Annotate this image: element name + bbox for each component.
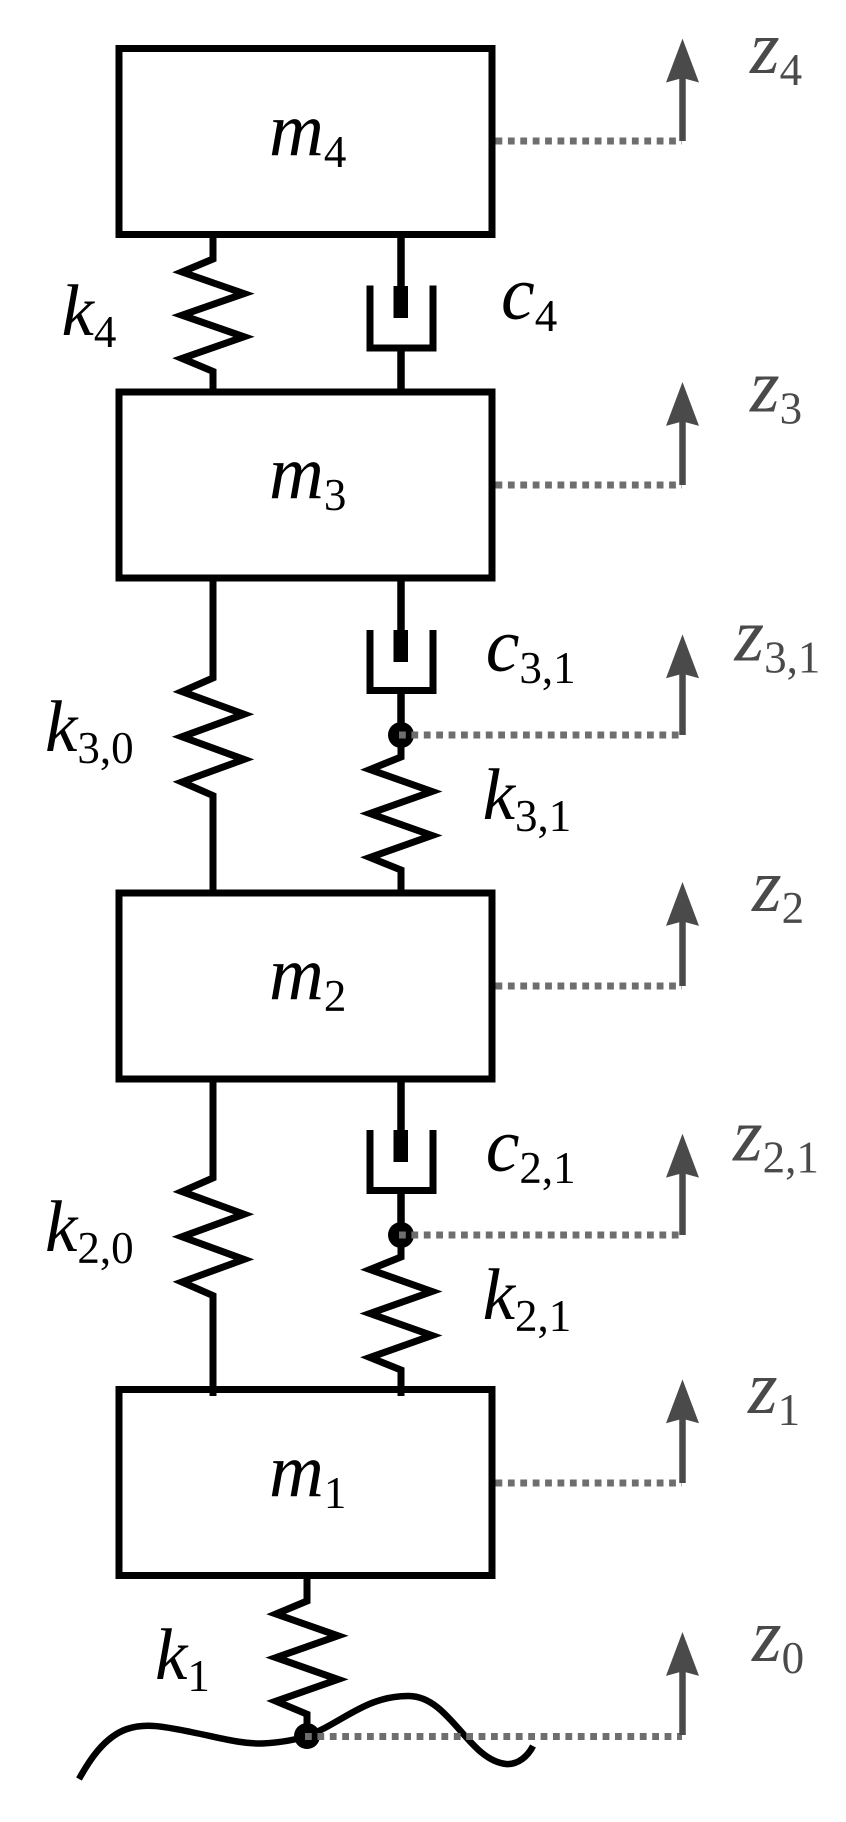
svg-text:c3,1: c3,1 [486,604,576,693]
ground wave [79,1696,533,1779]
spring k20 [182,1076,244,1396]
damper c4 rod upper [397,232,405,292]
damper c21 cup [370,1130,433,1191]
damper c4 cup [370,286,433,349]
spring k30 [182,575,244,896]
svg-text:z2,1: z2,1 [732,1094,819,1183]
arrow z21 [666,1134,699,1235]
dotted link z0 [305,1733,682,1740]
spring k21 [370,1246,432,1396]
dotted link z4 [496,138,683,145]
dotted link z21 [399,1232,682,1239]
arrow z1 [666,1379,699,1483]
dotted link z2 [496,983,683,990]
svg-text:k1: k1 [155,1614,210,1701]
svg-text:m3: m3 [269,431,346,520]
damper c4 piston [394,286,409,318]
dotted link z3 [496,482,683,489]
arrow z2 [666,882,699,986]
svg-text:m2: m2 [269,932,346,1021]
svg-text:c4: c4 [501,252,557,341]
damper c31 rod upper [397,575,405,636]
arrow z4 [666,39,699,141]
dotted link z1 [496,1480,683,1487]
damper c21 rod upper [397,1076,405,1136]
spring k4 [182,232,244,395]
svg-text:k3,0: k3,0 [45,686,134,773]
damper c21 rod lower [397,1191,405,1236]
svg-text:z1: z1 [747,1346,800,1435]
svg-text:m1: m1 [269,1429,346,1518]
spring k31 [370,746,432,896]
arrow z3 [666,382,699,485]
svg-text:c2,1: c2,1 [486,1104,576,1193]
node z21 [388,1222,414,1248]
mass m3 box [119,392,492,578]
damper c4 rod lower [397,348,405,395]
svg-text:z4: z4 [749,6,802,95]
arrow z31 [666,634,699,735]
damper c31 cup [370,630,433,691]
arrow z0 [666,1632,699,1735]
damper c31 piston [394,630,409,662]
svg-text:z3: z3 [749,345,802,434]
spring k1 [276,1573,338,1736]
damper c21 piston [394,1130,409,1162]
dotted link z31 [399,732,682,739]
svg-text:k4: k4 [62,270,117,357]
svg-text:k3,1: k3,1 [483,754,572,841]
svg-text:z0: z0 [751,1594,804,1683]
mass m4 box [119,49,492,235]
svg-text:z3,1: z3,1 [734,594,821,683]
svg-text:k2,0: k2,0 [45,1186,134,1273]
damper c31 rod lower [397,691,405,736]
node z31 [388,722,414,748]
svg-text:k2,1: k2,1 [483,1254,572,1341]
mass m2 box [119,893,492,1079]
svg-text:m4: m4 [269,88,346,177]
node z0 [294,1723,320,1749]
svg-text:z2: z2 [751,844,804,933]
mass m1 box [119,1390,492,1576]
